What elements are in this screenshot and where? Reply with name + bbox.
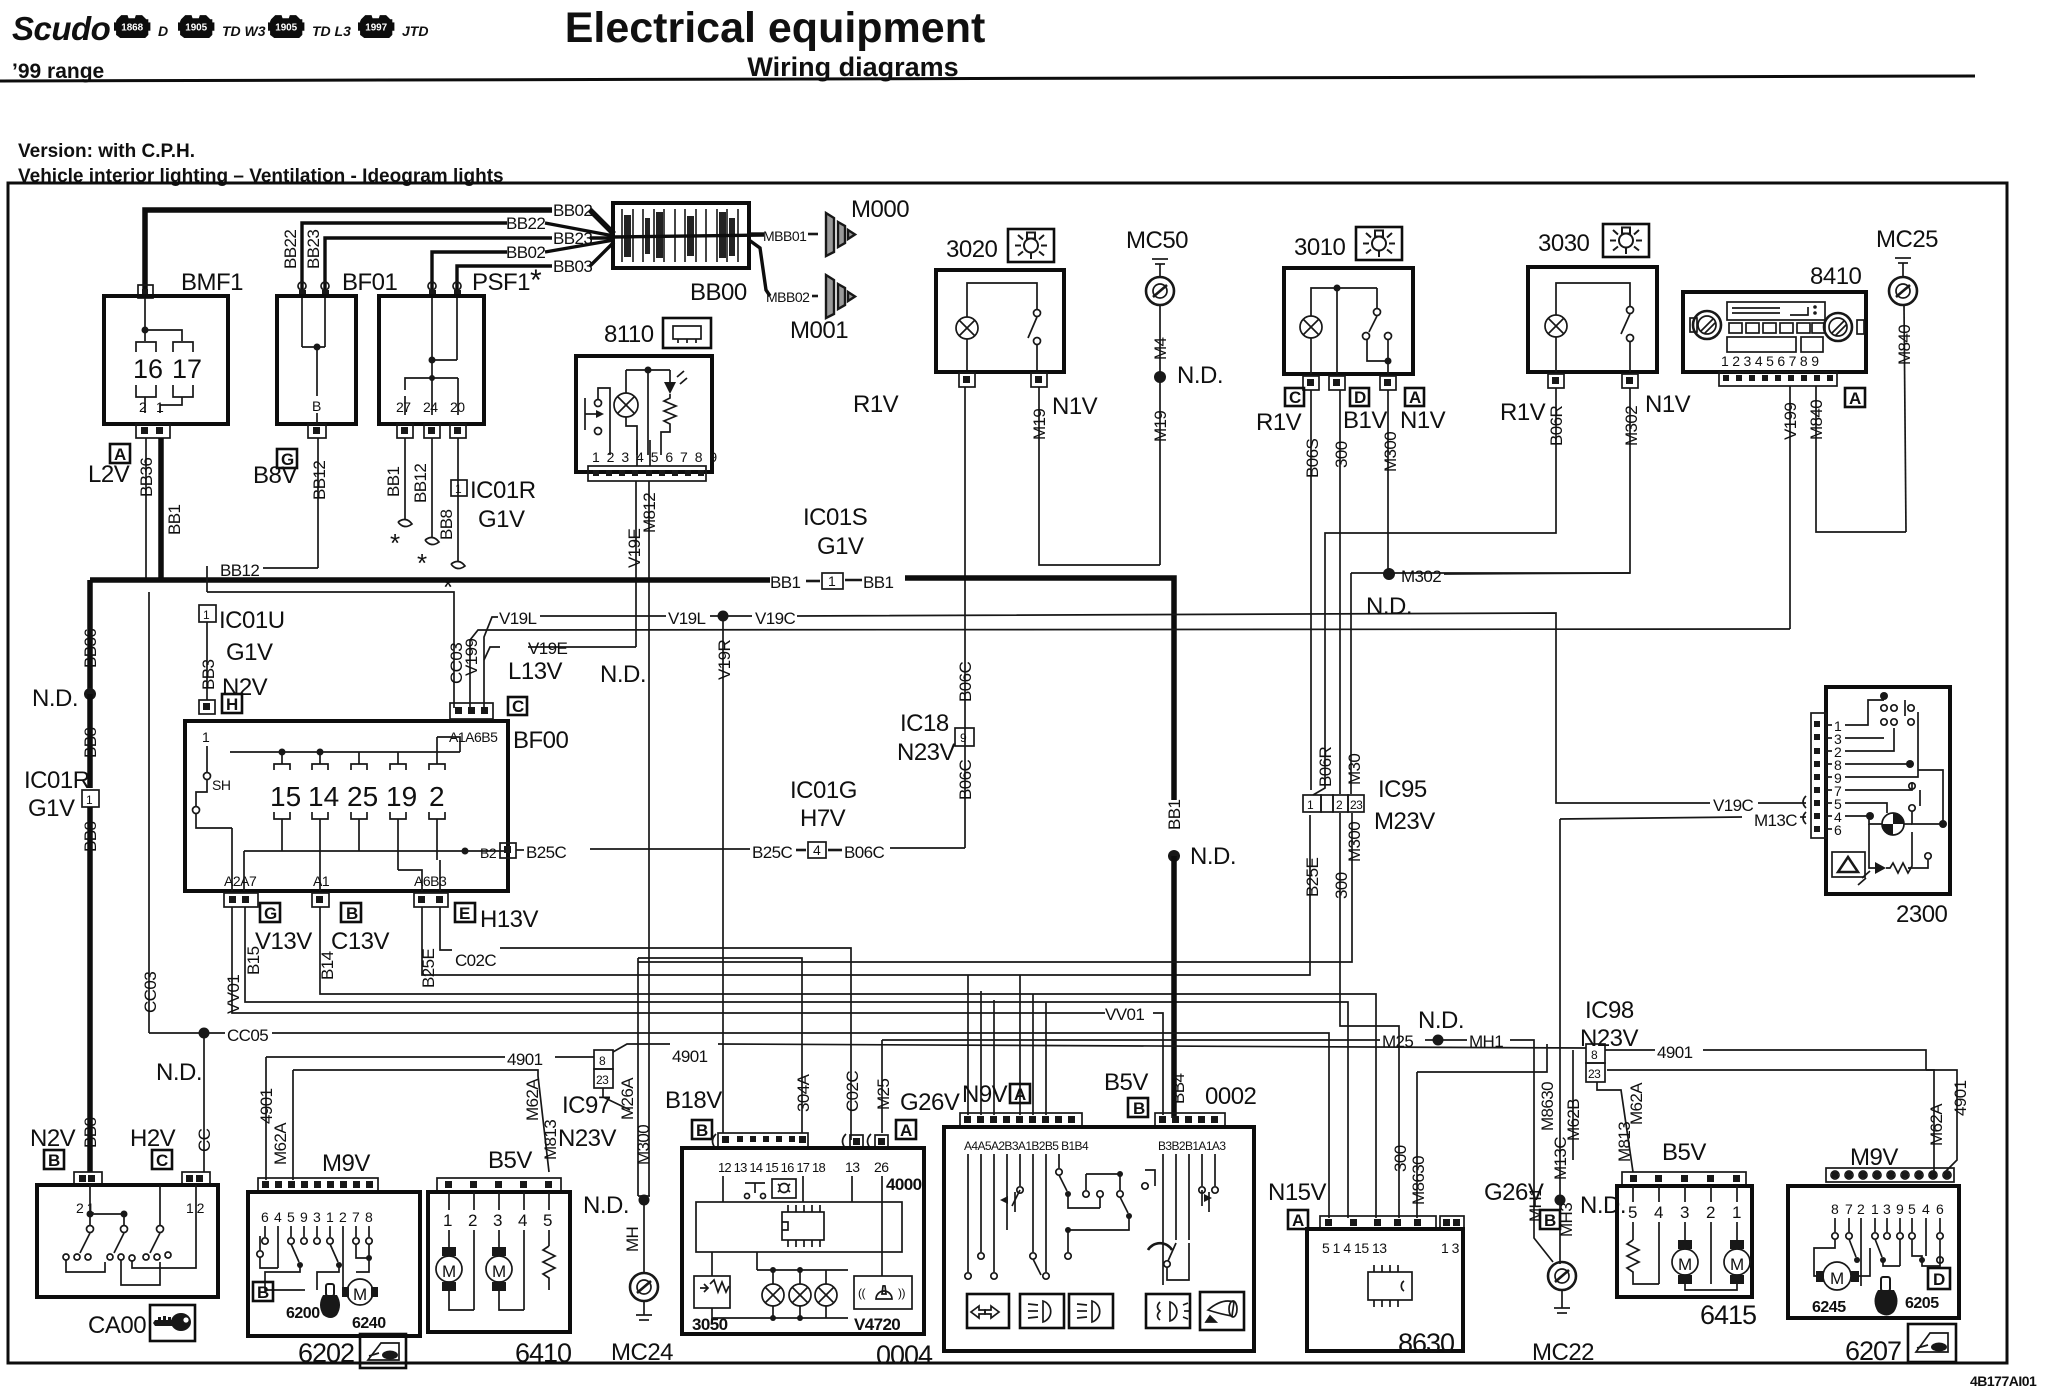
svg-text:2: 2	[139, 399, 147, 415]
svg-text:IC01R: IC01R	[24, 767, 90, 794]
loudspeaker M001	[826, 275, 855, 318]
wire B06C	[964, 387, 966, 848]
svg-text:IC01U: IC01U	[219, 607, 285, 634]
svg-text:M813: M813	[1615, 1122, 1634, 1162]
svg-text:19: 19	[386, 781, 417, 812]
control unit BF00	[185, 721, 508, 891]
svg-text:BB23: BB23	[304, 230, 323, 269]
svg-text:MBB02: MBB02	[766, 289, 810, 305]
svg-text:C13V: C13V	[331, 928, 390, 955]
wire B15	[245, 907, 1348, 1218]
wire V19E (turn)	[528, 646, 636, 648]
svg-text:4B177AI01: 4B177AI01	[1970, 1373, 2037, 1389]
resistor (6410)	[543, 1246, 555, 1290]
icon: horn	[1200, 1292, 1244, 1330]
connector pin (BMF1 top)	[138, 285, 153, 298]
svg-text:2300: 2300	[1896, 901, 1948, 928]
svg-text:G1V: G1V	[478, 506, 525, 533]
wire M62B	[1572, 1050, 1574, 1160]
svg-text:BB3: BB3	[199, 660, 218, 690]
svg-text:B: B	[696, 1121, 708, 1140]
connector H	[222, 694, 242, 713]
svg-text:5: 5	[1628, 1203, 1637, 1222]
wire V199 (radio feed)	[1789, 386, 1791, 629]
svg-text:M302: M302	[1622, 406, 1641, 446]
wire B06S	[1310, 390, 1312, 790]
logic board	[696, 1202, 902, 1252]
3030 internals	[1545, 315, 1567, 337]
svg-text:IC95: IC95	[1378, 776, 1427, 803]
wire M8630	[1417, 1044, 1547, 1072]
svg-text:1: 1	[455, 482, 462, 496]
connector B	[341, 903, 361, 922]
svg-text:BF01: BF01	[342, 269, 398, 296]
svg-text:M13C: M13C	[1754, 811, 1797, 830]
svg-text:L13V: L13V	[508, 658, 563, 685]
svg-text:B1V: B1V	[1343, 407, 1387, 434]
svg-text:A6B3: A6B3	[414, 873, 447, 889]
wire 4901 (right)	[1605, 1049, 1655, 1051]
svg-text:M62A: M62A	[271, 1122, 290, 1165]
svg-text:L2V: L2V	[88, 461, 130, 488]
svg-text:TD W3: TD W3	[222, 23, 266, 39]
connector strip (BF00 top right)	[450, 703, 493, 719]
lamp (2300)	[1866, 812, 1874, 820]
3010 internals	[1300, 316, 1322, 338]
svg-text:M: M	[1678, 1255, 1692, 1274]
svg-text:A: A	[1849, 389, 1861, 408]
svg-text:M19: M19	[1151, 411, 1170, 442]
connector G	[260, 903, 280, 922]
svg-text:6: 6	[1936, 1201, 1944, 1217]
svg-text:23: 23	[1350, 798, 1363, 812]
fuse 14	[319, 752, 321, 764]
svg-text:N.D.: N.D.	[32, 685, 78, 712]
svg-text:N1V: N1V	[1645, 391, 1691, 418]
svg-text:1 3: 1 3	[1441, 1240, 1460, 1256]
node BB12 tap	[206, 566, 208, 592]
svg-text:G1V: G1V	[28, 795, 75, 822]
svg-text:V19C: V19C	[755, 609, 795, 628]
svg-text:BB12: BB12	[310, 461, 329, 500]
wire B25E	[422, 815, 1310, 975]
svg-text:M: M	[492, 1262, 506, 1281]
svg-text:C02C: C02C	[843, 1071, 862, 1112]
svg-text:3: 3	[313, 1209, 321, 1225]
svg-text:VV01: VV01	[224, 975, 243, 1014]
svg-text:5: 5	[543, 1211, 552, 1230]
connector strip (2300)	[1811, 713, 1826, 838]
svg-text:5: 5	[1908, 1201, 1916, 1217]
svg-text:Electrical equipment: Electrical equipment	[565, 4, 986, 52]
node N.D. junction	[1154, 371, 1166, 383]
svg-text:M: M	[1830, 1269, 1844, 1288]
ground MC24	[639, 1195, 650, 1206]
svg-text:SH: SH	[212, 777, 230, 793]
connector strip (6202)	[258, 1178, 378, 1192]
wire MBB feed-through	[613, 235, 764, 237]
wire BB36/BB8 (thick left chain)	[87, 580, 93, 690]
0004 internals	[722, 1176, 724, 1202]
svg-text:R1V: R1V	[1256, 409, 1302, 436]
svg-text:BB36: BB36	[137, 458, 156, 497]
svg-text:A4A5A2B3A1B2B5 B1B4: A4A5A2B3A1B2B5 B1B4	[964, 1139, 1089, 1153]
svg-text:N15V: N15V	[1268, 1179, 1327, 1206]
svg-text:4: 4	[1922, 1201, 1930, 1217]
connector C	[152, 1150, 172, 1169]
svg-text:G: G	[264, 904, 277, 923]
connector C (BF00)	[508, 697, 527, 715]
node N.D. (BB1)	[1168, 850, 1180, 862]
6207 internals	[1835, 1218, 1940, 1286]
motor M (6410 left)	[442, 1247, 456, 1256]
svg-text:BB03: BB03	[553, 257, 592, 276]
svg-text:BB1: BB1	[165, 505, 184, 535]
svg-text:6410: 6410	[515, 1338, 571, 1368]
svg-text:BF00: BF00	[513, 727, 569, 754]
wire CC05	[199, 1028, 210, 1039]
svg-text:V19L: V19L	[668, 609, 705, 628]
ground MC22	[1548, 1262, 1576, 1290]
svg-text:PSF1*: PSF1*	[472, 264, 542, 297]
wire MBB01	[749, 232, 764, 235]
svg-text:6: 6	[261, 1209, 269, 1225]
svg-text:M8630: M8630	[1538, 1082, 1557, 1131]
wire drops to 0002 connector	[967, 975, 969, 1115]
svg-text:M001: M001	[790, 317, 848, 344]
key lamp (6205)	[1875, 1277, 1898, 1316]
svg-text:BB22: BB22	[281, 230, 300, 269]
svg-text:M23V: M23V	[1374, 808, 1435, 835]
wire B14	[320, 907, 1376, 1218]
svg-text:B25E: B25E	[1303, 858, 1322, 897]
svg-text:B: B	[1544, 1211, 1556, 1230]
svg-text:BB8: BB8	[81, 728, 100, 758]
2300 internals	[1826, 700, 1918, 829]
wire BB02 top bus	[145, 210, 552, 294]
connector A	[110, 444, 130, 463]
svg-text:M: M	[353, 1285, 367, 1304]
svg-text:G1V: G1V	[817, 533, 864, 560]
svg-text:R1V: R1V	[1500, 399, 1546, 426]
svg-text:N.D.: N.D.	[1418, 1007, 1464, 1034]
svg-text:A1: A1	[313, 873, 330, 889]
svg-text:A: A	[1014, 1085, 1026, 1104]
wire BB4 (thick to 0002)	[1171, 856, 1177, 1118]
svg-text:V19L: V19L	[499, 609, 536, 628]
svg-text:6200: 6200	[286, 1305, 320, 1322]
svg-text:((: ((	[858, 1286, 865, 1300]
svg-text:2: 2	[1336, 798, 1343, 812]
svg-text:3: 3	[1680, 1203, 1689, 1222]
wire CC03 (to BF00)	[207, 592, 454, 708]
wire M840 (radio ground)	[1816, 386, 1906, 532]
svg-text:MC22: MC22	[1532, 1339, 1594, 1366]
svg-text:C: C	[1289, 388, 1301, 407]
motor (6245)	[1823, 1262, 1851, 1290]
svg-text:G26V: G26V	[900, 1089, 960, 1116]
svg-text:M000: M000	[851, 196, 909, 223]
connector strip (8110)	[588, 466, 706, 481]
fuse 2	[436, 737, 438, 764]
svg-text:1868: 1868	[121, 23, 143, 34]
svg-text:M13C: M13C	[1551, 1137, 1570, 1180]
fuse 19	[397, 752, 399, 764]
fuse 15	[281, 752, 283, 764]
svg-text:3020: 3020	[946, 236, 998, 263]
svg-text:8410: 8410	[1810, 263, 1862, 290]
svg-text:M812: M812	[640, 493, 659, 533]
BMF1 internals: fuses 16 17	[144, 298, 146, 341]
svg-text:B25C: B25C	[526, 843, 566, 862]
svg-text:23: 23	[1588, 1067, 1601, 1081]
svg-text:B: B	[1133, 1099, 1145, 1118]
connector IC01R G1V (top)	[451, 480, 467, 496]
wire BB12 (PSF1 spare)	[431, 438, 433, 538]
connector IC01U G1V	[199, 605, 216, 622]
svg-text:5 1 4 15 13: 5 1 4 15 13	[1322, 1240, 1387, 1256]
svg-text:V199: V199	[462, 639, 481, 676]
svg-text:M62B: M62B	[1564, 1099, 1583, 1141]
svg-text:N.D.: N.D.	[583, 1192, 629, 1219]
svg-text:17: 17	[172, 354, 202, 384]
wire BB1 main thick bus	[90, 577, 770, 583]
svg-text:B18V: B18V	[665, 1087, 722, 1114]
svg-text:N.D.: N.D.	[600, 661, 646, 688]
svg-text:VV01: VV01	[1105, 1005, 1144, 1024]
wire M302 (3030 drop)	[1351, 388, 1630, 573]
svg-text:M300: M300	[1381, 432, 1400, 472]
wire BB1 (thick, to bus)	[158, 438, 164, 580]
svg-text:7: 7	[352, 1209, 360, 1225]
svg-text:A: A	[900, 1121, 912, 1140]
motor (6240)	[347, 1279, 373, 1305]
svg-text:3010: 3010	[1294, 234, 1346, 261]
icon: turn signals	[967, 1294, 1009, 1328]
fuse 25	[358, 752, 360, 764]
wire 4901 (lower left)	[266, 1056, 505, 1058]
svg-text:V13V: V13V	[255, 928, 312, 955]
wire BB03	[457, 266, 552, 290]
svg-text:MC24: MC24	[611, 1339, 673, 1366]
svg-text:BB00: BB00	[690, 279, 747, 306]
junction unit BB00	[613, 203, 749, 268]
wire M26A/M300	[637, 958, 639, 1196]
svg-text:BB1: BB1	[863, 573, 893, 592]
svg-text:)): ))	[898, 1286, 905, 1300]
connector pins (CA00 top)	[74, 1172, 102, 1185]
svg-text:N.D.: N.D.	[156, 1059, 202, 1086]
svg-text:M25: M25	[874, 1079, 893, 1110]
svg-text:9: 9	[1896, 1201, 1904, 1217]
svg-text:V19R: V19R	[715, 640, 734, 680]
svg-text:B5V: B5V	[488, 1147, 532, 1174]
wire V19R	[722, 616, 724, 1133]
svg-text:M302: M302	[1401, 567, 1441, 586]
svg-text:Version: with C.P.H.: Version: with C.P.H.	[18, 141, 195, 162]
svg-text:6415: 6415	[1700, 1300, 1756, 1330]
svg-text:B: B	[257, 1283, 269, 1302]
svg-text:4901: 4901	[1657, 1043, 1693, 1062]
svg-text:B: B	[346, 904, 358, 923]
hazard switch unit 2300	[1826, 687, 1950, 894]
svg-text:26: 26	[874, 1159, 889, 1175]
connector B	[692, 1120, 712, 1139]
svg-text:Scudo: Scudo	[12, 10, 111, 47]
svg-text:6207: 6207	[1845, 1336, 1901, 1366]
svg-text:304A: 304A	[794, 1073, 813, 1112]
svg-text:0002: 0002	[1205, 1083, 1257, 1110]
svg-text:BMF1: BMF1	[181, 269, 243, 296]
svg-text:3: 3	[493, 1211, 502, 1230]
svg-text:BB1: BB1	[384, 467, 403, 497]
svg-text:1: 1	[828, 573, 836, 589]
loudspeaker M000	[826, 213, 855, 256]
svg-text:CA00: CA00	[88, 1312, 146, 1339]
svg-text:JTD: JTD	[402, 23, 428, 39]
squiggle connector marks (2300 pins 5/4)	[1803, 796, 1806, 808]
svg-text:G26V: G26V	[1484, 1179, 1544, 1206]
svg-text:1: 1	[156, 399, 164, 415]
svg-text:300: 300	[1332, 872, 1351, 899]
svg-text:*: *	[443, 572, 453, 602]
svg-text:8: 8	[365, 1209, 373, 1225]
svg-text:4: 4	[274, 1209, 282, 1225]
wire CC (to ignition switch)	[203, 1033, 205, 1172]
svg-text:M4: M4	[1151, 337, 1170, 360]
svg-text:M19: M19	[1030, 409, 1049, 440]
svg-text:B06C: B06C	[956, 662, 975, 702]
8630 internals: IC	[1368, 1272, 1412, 1300]
svg-text:N.D.: N.D.	[1580, 1192, 1626, 1219]
svg-text:4901: 4901	[507, 1050, 543, 1069]
svg-text:H7V: H7V	[800, 805, 846, 832]
wire V19E	[635, 481, 637, 647]
svg-text:B25C: B25C	[752, 843, 792, 862]
svg-text:TD L3: TD L3	[312, 23, 351, 39]
motor M (6410 mid)	[492, 1247, 506, 1256]
svg-text:BB12: BB12	[411, 464, 430, 503]
svg-text:M62A: M62A	[523, 1078, 542, 1121]
svg-text:M26A: M26A	[618, 1077, 637, 1120]
connector A	[896, 1120, 916, 1139]
svg-text:M840: M840	[1895, 325, 1914, 365]
svg-text:B5V: B5V	[1104, 1069, 1148, 1096]
svg-text:D: D	[1933, 1270, 1945, 1289]
svg-text:6202: 6202	[298, 1338, 354, 1368]
svg-text:N9V: N9V	[962, 1081, 1008, 1108]
svg-text:B: B	[312, 398, 321, 414]
svg-text:23: 23	[596, 1073, 609, 1087]
svg-text:BB1: BB1	[1165, 800, 1184, 830]
engine icon 1868 D	[114, 15, 150, 38]
svg-text:N23V: N23V	[1580, 1025, 1639, 1052]
wire M812 (long drop)	[648, 481, 650, 1196]
svg-text:M300: M300	[634, 1125, 653, 1165]
svg-text:15: 15	[270, 781, 301, 812]
svg-text:IC97: IC97	[562, 1092, 611, 1119]
svg-text:C02C: C02C	[455, 951, 496, 970]
connector B	[1128, 1098, 1148, 1117]
wire 300	[1339, 390, 1341, 794]
svg-text:IC01G: IC01G	[790, 777, 857, 804]
wire CC03 (left drop)	[148, 592, 150, 1033]
svg-text:N23V: N23V	[897, 739, 956, 766]
connector E	[455, 903, 475, 922]
svg-text:BB8: BB8	[81, 1118, 100, 1148]
svg-text:2: 2	[1706, 1203, 1715, 1222]
wire BB12 (from BF01 down to bus)	[317, 438, 319, 568]
svg-text:6: 6	[1834, 822, 1842, 838]
8410 internals	[1693, 311, 1721, 339]
wire B06R	[1313, 388, 1556, 795]
buzzer V4720	[854, 1276, 912, 1309]
wire BB22	[302, 223, 507, 290]
wire BB8 (PSF1 spare)	[457, 438, 459, 562]
wire C02C	[440, 907, 452, 950]
svg-text:M25: M25	[1382, 1032, 1413, 1051]
svg-text:1: 1	[443, 1211, 452, 1230]
3020 internals: lamp + switch	[956, 317, 978, 339]
svg-text:CC03: CC03	[141, 972, 160, 1013]
svg-text:M62A: M62A	[1927, 1103, 1946, 1146]
header rule	[0, 76, 1975, 81]
svg-text:4901: 4901	[257, 1088, 276, 1124]
svg-text:G1V: G1V	[226, 639, 273, 666]
svg-text:B06C: B06C	[956, 760, 975, 800]
wire M300 (IC95 to MC24)	[638, 813, 1352, 962]
connector A	[1288, 1210, 1308, 1229]
svg-text:1905: 1905	[185, 23, 207, 34]
svg-text:H2V: H2V	[130, 1125, 176, 1152]
svg-text:5: 5	[287, 1209, 295, 1225]
svg-text:BB02: BB02	[506, 243, 545, 262]
wire 300 (to 8630)	[1340, 962, 1399, 1218]
svg-text:V19E: V19E	[625, 529, 644, 568]
svg-text:1: 1	[86, 793, 93, 807]
svg-text:4: 4	[813, 842, 821, 858]
svg-text:M62A: M62A	[1627, 1082, 1646, 1125]
svg-text:V199: V199	[1781, 403, 1800, 440]
svg-text:1 2 3 4 5 6 7 8 9: 1 2 3 4 5 6 7 8 9	[592, 449, 719, 465]
svg-text:1: 1	[326, 1209, 334, 1225]
svg-text:13: 13	[845, 1159, 860, 1175]
svg-text:IC18: IC18	[900, 710, 949, 737]
svg-text:CC: CC	[195, 1128, 214, 1152]
svg-text:2: 2	[1857, 1201, 1865, 1217]
svg-text:25: 25	[347, 781, 378, 812]
svg-text:3030: 3030	[1538, 230, 1590, 257]
wire BB1 (PSF1 spare)	[404, 438, 406, 520]
wire BB23	[325, 238, 552, 290]
svg-text:N.D.: N.D.	[1190, 843, 1236, 870]
svg-text:6245: 6245	[1812, 1299, 1846, 1316]
svg-text:2: 2	[468, 1211, 477, 1230]
wire M62A (left)	[293, 1070, 549, 1172]
svg-text:R1V: R1V	[853, 391, 899, 418]
svg-text:C: C	[156, 1151, 168, 1170]
svg-text:B06C: B06C	[844, 843, 884, 862]
svg-text:1997: 1997	[365, 23, 387, 34]
svg-text:B25E: B25E	[419, 949, 438, 988]
svg-text:N.D.: N.D.	[1177, 362, 1223, 389]
svg-text:M300: M300	[1345, 822, 1364, 862]
wire VV01	[232, 907, 1105, 1013]
wire BB36	[145, 438, 147, 580]
svg-text:N23V: N23V	[558, 1125, 617, 1152]
connector A	[1010, 1084, 1030, 1103]
svg-text:M30: M30	[1345, 754, 1364, 785]
